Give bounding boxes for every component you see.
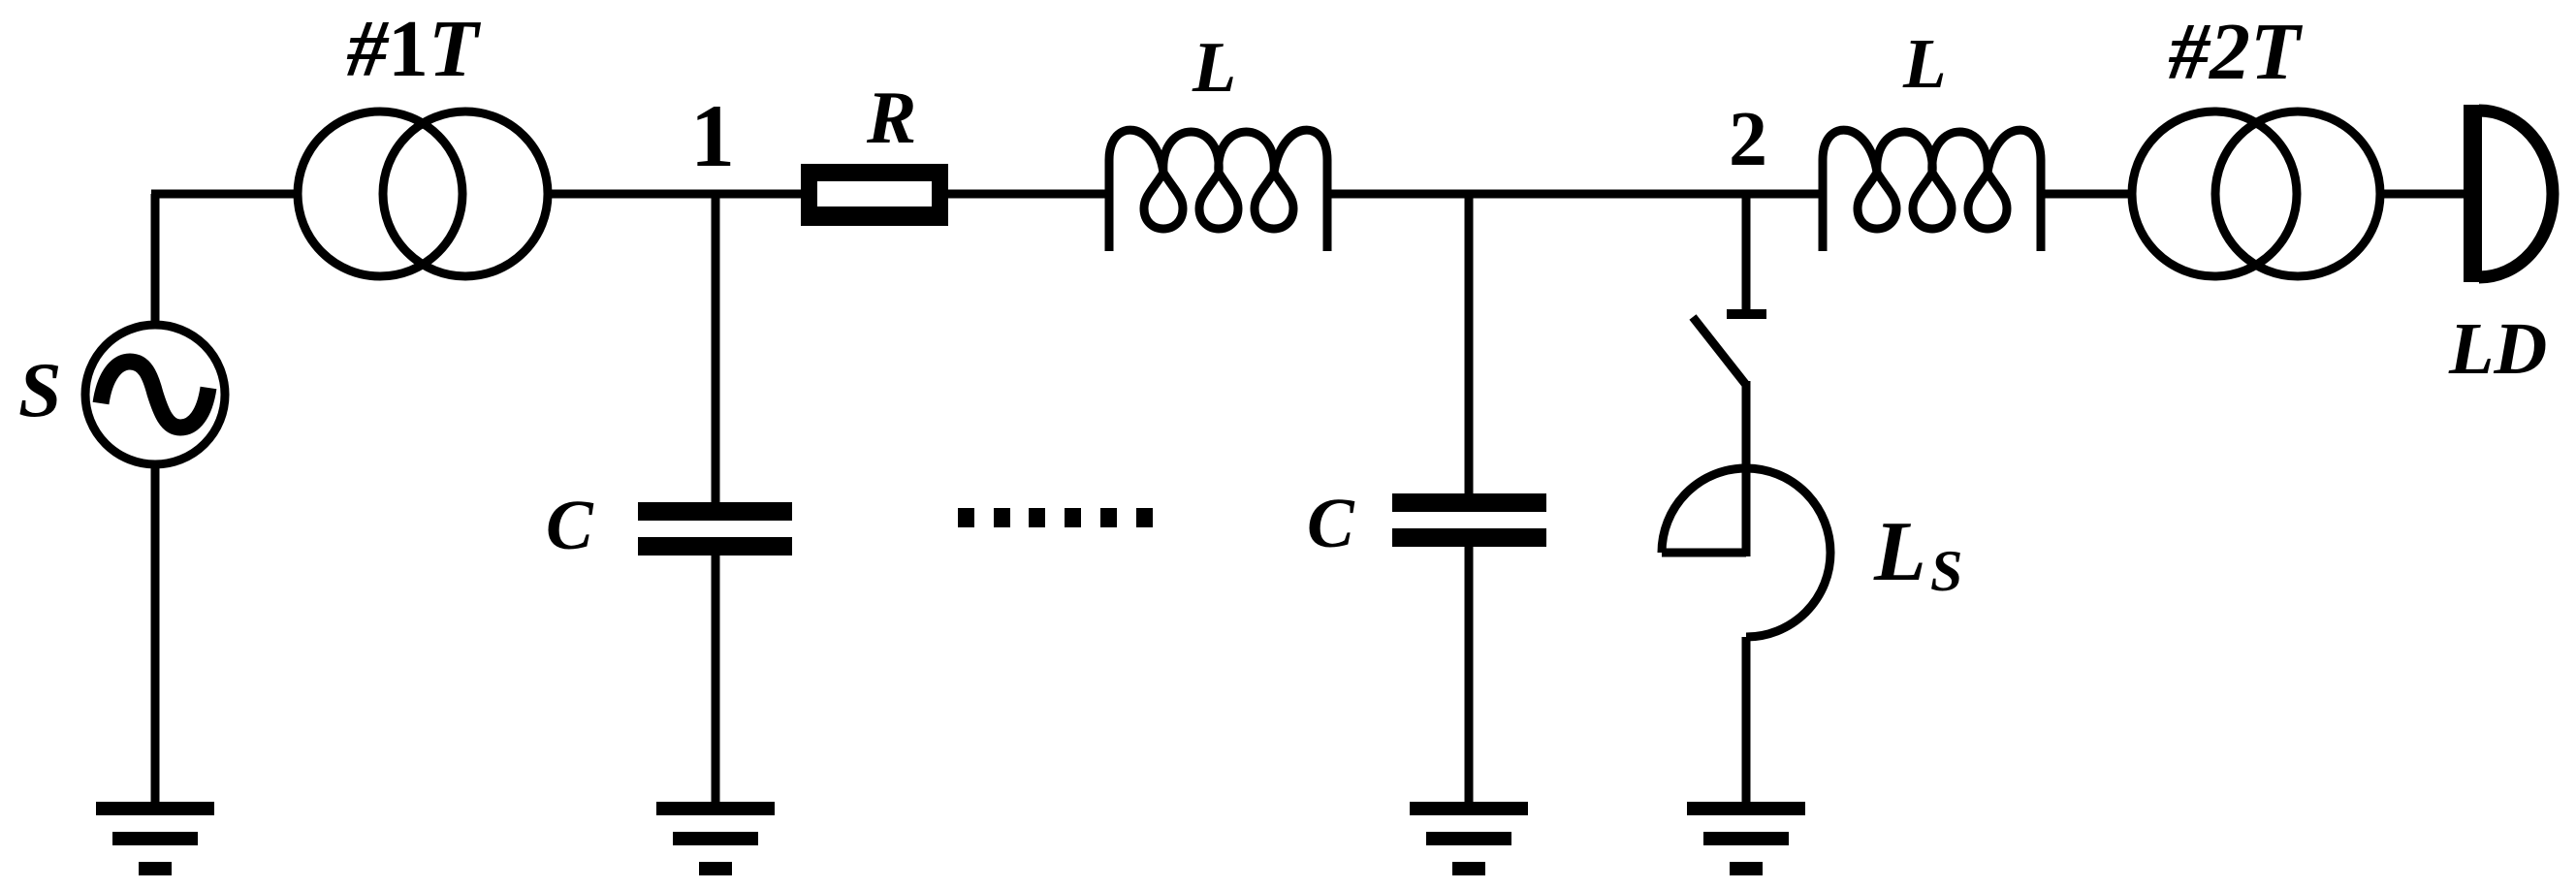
capacitor C1 — [638, 502, 792, 521]
ground — [96, 802, 214, 875]
svg-text:#1T: #1T — [346, 4, 482, 94]
sine wave inside source — [101, 362, 208, 428]
wire — [1742, 381, 1751, 556]
LS radius chord — [1662, 549, 1746, 557]
capacitor C2 — [1392, 493, 1546, 512]
wire — [151, 190, 296, 199]
svg-text:S: S — [1930, 539, 1962, 603]
svg-text:S: S — [18, 348, 62, 433]
wire — [151, 194, 160, 322]
wire — [2380, 190, 2467, 199]
svg-text:1: 1 — [690, 86, 735, 185]
svg-text:LD: LD — [2448, 308, 2547, 390]
svg-text:C: C — [1307, 484, 1355, 562]
wire — [552, 190, 803, 199]
load LD bar — [2464, 105, 2482, 282]
svg-text:#2T: #2T — [2168, 7, 2304, 97]
transformer U2 #2T — [2132, 111, 2297, 276]
wire — [712, 194, 720, 506]
switch blade — [1693, 317, 1746, 385]
svg-text:L: L — [1192, 28, 1236, 108]
svg-text:L: L — [1902, 24, 1947, 103]
load LD arc — [2479, 111, 2553, 277]
source S — [85, 325, 225, 464]
wire — [1323, 190, 1827, 199]
ground — [1410, 802, 1528, 875]
saturable reactor LS arc — [1662, 468, 1830, 637]
wire — [151, 467, 160, 807]
wire — [1465, 547, 1474, 807]
wire — [2037, 190, 2132, 199]
svg-text:R: R — [866, 76, 916, 159]
svg-text:L: L — [1873, 505, 1926, 599]
dots ...... — [958, 508, 1153, 527]
transformer U1 #1T — [298, 111, 462, 276]
wire — [1742, 637, 1751, 807]
wire node2 stub — [1742, 194, 1751, 310]
switch fixed contact — [1727, 309, 1766, 319]
wire — [712, 556, 720, 807]
inductor L2 — [1823, 130, 2041, 251]
svg-text:2: 2 — [1729, 97, 1767, 182]
svg-text:C: C — [546, 486, 594, 564]
node junction C2 — [1465, 194, 1474, 497]
ground — [1687, 802, 1805, 875]
inductor L1 — [1109, 130, 1327, 251]
wire — [948, 190, 1113, 199]
resistor R — [801, 164, 948, 226]
ground — [656, 802, 775, 875]
